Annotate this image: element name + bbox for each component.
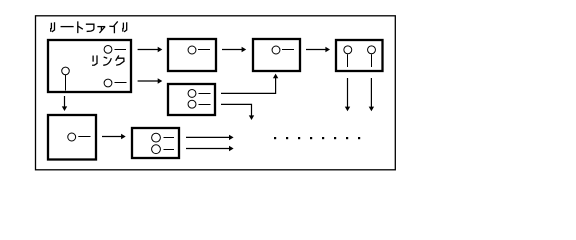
link symbol A in box7 — [152, 133, 161, 142]
arrow box1 to box2 — [138, 47, 163, 52]
ellipsis dots — [274, 137, 360, 139]
arrow box1 to box5 — [138, 78, 163, 83]
box2 : file block — [168, 39, 216, 71]
box6 : file block — [48, 115, 96, 160]
ン — [104, 56, 106, 59]
リ — [92, 56, 94, 61]
ク — [116, 56, 119, 60]
arrow A right of box7 — [186, 135, 234, 140]
elbow arrow box5 down — [221, 104, 254, 120]
arrow box2 to box3 — [222, 47, 246, 52]
box1 : root file record block — [48, 40, 131, 92]
link symbol in box3 — [272, 46, 280, 54]
ト — [77, 22, 79, 33]
link symbol B in box5 — [188, 100, 196, 108]
link symbol 2 in box1 (circle + dash) — [104, 79, 112, 87]
ル — [50, 23, 53, 31]
box3 : file block — [253, 39, 300, 71]
link symbol B in box7 — [152, 145, 161, 154]
down arrow A below box4 — [345, 78, 350, 111]
arrow B right of box7 — [186, 146, 234, 151]
outer frame of diagram — [36, 16, 396, 170]
label: リンク (link) — [93, 56, 124, 65]
label: ルートファイル (root file) — [51, 22, 127, 33]
down arrow B below box4 — [369, 78, 374, 111]
link symbol A in box5 — [188, 89, 196, 97]
pin symbol B in box4 — [368, 46, 376, 54]
link symbol in box6 — [68, 133, 76, 141]
arrow box3 to box4 — [306, 47, 330, 52]
ル — [122, 23, 125, 31]
box4 : file block with two pins — [336, 40, 383, 71]
イ — [110, 22, 117, 27]
ー — [61, 26, 73, 28]
elbow arrow box5 to box3 (up) — [221, 74, 278, 94]
link symbol 1 in box1 (circle + dash) — [104, 46, 112, 54]
pin symbol A in box4 — [344, 46, 352, 54]
down arrow box1 to box6 — [62, 96, 67, 111]
box7 : file block with two links — [132, 128, 179, 158]
link symbol in box2 — [188, 46, 196, 54]
pin symbol in box1 (circle + down line) — [62, 67, 70, 75]
arrow box6 to box7 — [102, 134, 126, 139]
フ — [87, 24, 94, 31]
box5 : file block with two links — [168, 84, 215, 115]
ァ — [98, 26, 105, 28]
